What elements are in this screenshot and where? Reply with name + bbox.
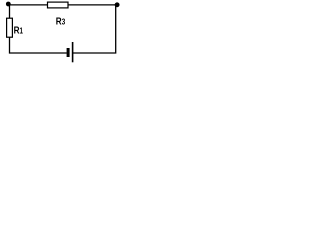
wire bottom-right: battery right to corner and up to node B [73, 5, 116, 53]
node A (top-left junction dot) [6, 2, 11, 7]
battery long thin plate (positive terminal) [72, 42, 74, 62]
resistor R3 (horizontal box body) [48, 2, 69, 8]
wire top-right: resistor R3 to node B [68, 4, 117, 6]
wire top-left: node A to resistor R3 [8, 4, 48, 6]
battery short thick plate (negative terminal) [67, 48, 70, 57]
svg-text:R3: R3 [56, 15, 65, 27]
resistor R1 (vertical box body) [7, 18, 13, 37]
wire left: node A down to resistor R1 [9, 4, 11, 19]
wire bottom-left: resistor R1 down and right to battery [10, 37, 67, 53]
node B (top-right junction dot) [115, 2, 120, 7]
svg-text:R1: R1 [14, 23, 23, 35]
